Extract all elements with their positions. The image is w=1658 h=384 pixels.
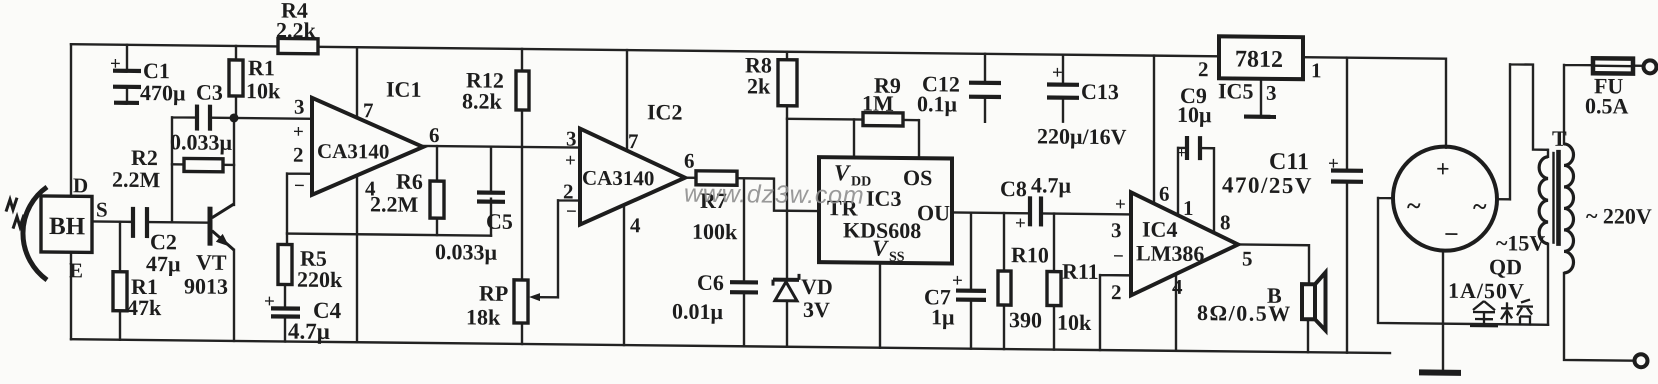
svg-text:4.7μ: 4.7μ xyxy=(1031,172,1071,197)
svg-text:3: 3 xyxy=(1111,218,1121,242)
svg-text:+: + xyxy=(293,122,304,143)
svg-text:CA3140: CA3140 xyxy=(582,166,654,191)
bridge rectifier QD circle xyxy=(1393,146,1497,251)
svg-text:IC4: IC4 xyxy=(1142,216,1177,241)
wire C3 left to R2/base xyxy=(172,117,196,222)
capacitor C5 plates xyxy=(477,193,505,202)
bridge minus output wire xyxy=(1442,252,1444,371)
svg-text:E: E xyxy=(69,258,83,282)
speaker B body xyxy=(1302,272,1326,330)
resistor R8 leads xyxy=(786,52,788,280)
wire IC4 pin2 ground xyxy=(1100,275,1131,350)
svg-text:BH: BH xyxy=(49,213,86,240)
svg-text:8Ω/0.5W: 8Ω/0.5W xyxy=(1197,300,1292,326)
resistor R6 leads xyxy=(436,146,438,235)
resistor R9 leads xyxy=(854,119,919,158)
svg-text:9013: 9013 xyxy=(184,273,228,298)
svg-text:1M: 1M xyxy=(862,91,894,116)
svg-text:10μ: 10μ xyxy=(1177,102,1212,127)
resistor R6 2.2M body xyxy=(430,181,444,218)
svg-text:6: 6 xyxy=(684,149,694,173)
svg-text:2k: 2k xyxy=(747,73,771,98)
wire IC4 pin6 xyxy=(1153,56,1155,204)
capacitor C1 plates xyxy=(113,71,141,103)
IC3 KDS608 box xyxy=(819,157,952,263)
svg-text:8.2k: 8.2k xyxy=(462,88,502,113)
resistor R4 2.2k body xyxy=(278,38,318,53)
svg-text:3: 3 xyxy=(1266,81,1276,105)
bridge minus ground bar xyxy=(1419,369,1461,375)
resistor R12 8.2k body xyxy=(516,71,529,110)
svg-text:~ 220V: ~ 220V xyxy=(1586,203,1652,229)
capacitor C11 plates xyxy=(1331,170,1363,181)
svg-text:7: 7 xyxy=(628,129,638,153)
microphone BH box xyxy=(41,196,92,253)
svg-text:VT: VT xyxy=(196,250,227,275)
svg-text:+: + xyxy=(952,270,963,291)
op-amp IC1 triangle xyxy=(312,98,423,196)
capacitor C13 leads xyxy=(1062,55,1064,122)
svg-text:100k: 100k xyxy=(692,219,738,244)
svg-text:RP: RP xyxy=(479,281,508,306)
terminal circle bottom xyxy=(1635,354,1648,367)
svg-text:10k: 10k xyxy=(1057,310,1092,335)
svg-text:−: − xyxy=(1113,246,1124,267)
wire IC2 pin4 xyxy=(623,205,625,345)
IC3 internal labels xyxy=(827,160,950,265)
resistor R2 leads xyxy=(172,163,234,166)
capacitor C13 plates xyxy=(1047,84,1079,97)
svg-text:2: 2 xyxy=(1198,57,1208,81)
svg-text:C8: C8 xyxy=(1000,176,1027,201)
svg-text:390: 390 xyxy=(1009,307,1042,332)
wire IC3 OU output to C8 and IC4 xyxy=(952,212,1131,214)
resistor R10 leads xyxy=(1003,213,1005,349)
svg-text:−: − xyxy=(1444,220,1459,249)
capacitor C11 leads xyxy=(1346,58,1348,353)
resistor R11 10k body xyxy=(1047,271,1061,305)
wire IC1 pin4 xyxy=(356,175,358,342)
resistor R5 220k body xyxy=(278,244,292,284)
transformer core lines xyxy=(1552,152,1554,244)
wire IC4 pin1 with C9 foot xyxy=(1178,148,1187,215)
svg-text:IC5: IC5 xyxy=(1218,78,1253,103)
svg-text:IC2: IC2 xyxy=(647,99,682,124)
svg-text:−: − xyxy=(294,176,305,197)
svg-text:S: S xyxy=(96,198,108,222)
svg-text:+: + xyxy=(110,54,121,75)
capacitor C4 leads xyxy=(284,284,286,341)
svg-text:R6: R6 xyxy=(396,169,423,194)
svg-text:QD: QD xyxy=(1489,254,1522,279)
svg-text:D: D xyxy=(73,173,88,197)
svg-text:SS: SS xyxy=(889,250,905,265)
svg-text:+: + xyxy=(1115,194,1126,215)
capacitor plates xyxy=(113,71,758,322)
svg-text:220μ/16V: 220μ/16V xyxy=(1037,123,1127,149)
potentiometer RP arrow xyxy=(529,293,540,301)
terminal circle top xyxy=(1644,60,1657,73)
svg-text:47k: 47k xyxy=(127,295,162,320)
resistor R2 2.2M body xyxy=(184,158,223,171)
svg-text:7812: 7812 xyxy=(1235,46,1283,73)
wire top bus xyxy=(71,44,1446,147)
resistor R10 390 body xyxy=(998,271,1011,305)
svg-text:R10: R10 xyxy=(1011,242,1049,267)
capacitor C5 leads xyxy=(490,147,492,236)
svg-text:+: + xyxy=(1015,213,1026,234)
capacitor C2 plates xyxy=(133,207,147,238)
svg-text:C5: C5 xyxy=(486,209,513,234)
svg-text:C6: C6 xyxy=(697,270,724,295)
capacitor C7 leads xyxy=(970,213,972,349)
svg-text:+: + xyxy=(264,291,275,312)
sound wave marks at microphone xyxy=(6,198,24,229)
regulator 7812 pin3 lead xyxy=(1260,79,1262,117)
wire IC4 pin5 to speaker xyxy=(1238,244,1309,352)
op-amp IC2 triangle xyxy=(580,129,685,226)
node collector junction wire to op-amp xyxy=(211,118,312,119)
svg-text:+: + xyxy=(1328,153,1339,174)
svg-text:R11: R11 xyxy=(1062,259,1099,284)
transistor VT 9013 xyxy=(210,204,234,250)
svg-text:2.2k: 2.2k xyxy=(276,17,316,42)
wire bottom ground bus xyxy=(71,339,1390,353)
svg-text:+: + xyxy=(1177,145,1186,162)
wire IC2 pin7 xyxy=(626,50,628,150)
resistor R1 10k body xyxy=(229,60,243,96)
capacitor C12 plates xyxy=(969,83,1001,97)
svg-text:2.2M: 2.2M xyxy=(370,191,418,217)
wire left rail xyxy=(70,44,72,339)
regulator pin3 ground bar xyxy=(1244,114,1276,119)
potentiometer RP 18k body xyxy=(514,280,528,323)
svg-text:T: T xyxy=(1552,126,1567,151)
svg-text:OU: OU xyxy=(917,200,950,225)
svg-text:R1: R1 xyxy=(248,55,275,80)
svg-text:0.5A: 0.5A xyxy=(1585,93,1628,118)
svg-text:4: 4 xyxy=(1172,275,1183,299)
capacitor C6 plates xyxy=(730,282,758,292)
capacitor C7 plates xyxy=(956,291,986,300)
svg-text:~: ~ xyxy=(1473,192,1487,221)
svg-text:0.1μ: 0.1μ xyxy=(917,91,957,116)
svg-text:3: 3 xyxy=(294,95,304,119)
wire IC1 inverting input xyxy=(287,174,312,245)
wire BH S to C2 to base xyxy=(92,221,210,222)
svg-text:OS: OS xyxy=(903,165,932,190)
svg-text:47μ: 47μ xyxy=(146,251,181,276)
svg-text:2.2M: 2.2M xyxy=(112,167,160,193)
capacitor C12 leads xyxy=(984,54,986,122)
wire collector vertical xyxy=(233,118,235,205)
wire IC4 pin8 with C9 foot xyxy=(1200,148,1214,233)
svg-text:18k: 18k xyxy=(466,304,501,329)
svg-text:C11: C11 xyxy=(1269,149,1309,175)
audio amp IC4 LM386 triangle xyxy=(1131,192,1238,296)
resistor R1 47k leads xyxy=(119,222,121,340)
svg-text:IC1: IC1 xyxy=(386,77,421,102)
wire IC4 pin4 xyxy=(1175,274,1177,351)
svg-text:~15V: ~15V xyxy=(1496,230,1545,256)
transformer primary winding xyxy=(1564,144,1574,273)
capacitor C3 plates xyxy=(197,105,210,131)
svg-text:V: V xyxy=(872,236,889,261)
fuse FU body xyxy=(1593,58,1633,73)
svg-text:+: + xyxy=(1436,157,1450,183)
svg-text:220k: 220k xyxy=(297,267,343,292)
regulator IC5 7812 box xyxy=(1219,36,1303,79)
svg-text:www.dz3w.com: www.dz3w.com xyxy=(684,180,864,210)
capacitor C9 plates xyxy=(1187,136,1200,160)
resistor R7 100k body xyxy=(696,171,737,185)
svg-text:7: 7 xyxy=(363,98,373,122)
wire R8 to R9/Vdd xyxy=(787,119,854,158)
wire IC1 output to IC2 xyxy=(423,146,580,148)
transistor VT emitter/collector leads xyxy=(233,250,235,341)
svg-text:0.033μ: 0.033μ xyxy=(435,239,497,265)
svg-text:1: 1 xyxy=(1311,58,1321,82)
svg-text:0.033μ: 0.033μ xyxy=(170,129,232,155)
microphone arc xyxy=(23,187,47,280)
svg-text:470μ: 470μ xyxy=(140,80,186,105)
svg-text:1A/50V: 1A/50V xyxy=(1448,278,1525,304)
transformer primary top wire to fuse xyxy=(1564,65,1643,145)
resistor R9 1M body xyxy=(863,113,903,126)
pin number labels xyxy=(110,53,1487,325)
svg-text:C3: C3 xyxy=(196,80,223,105)
capacitor C4 plates xyxy=(271,308,300,316)
svg-text:VD: VD xyxy=(801,274,833,299)
svg-text:1: 1 xyxy=(1183,196,1193,220)
capacitor C1 lead xyxy=(126,45,128,101)
resistor R1 47k body xyxy=(113,272,127,311)
transformer primary bottom wire xyxy=(1564,273,1634,361)
svg-text:3: 3 xyxy=(566,126,576,150)
svg-text:470/25V: 470/25V xyxy=(1222,172,1313,198)
svg-text:5: 5 xyxy=(1242,247,1252,271)
svg-text:2: 2 xyxy=(1111,280,1121,304)
svg-text:−: − xyxy=(566,201,577,222)
bridge left AC input wire xyxy=(1378,198,1548,325)
svg-text:10k: 10k xyxy=(246,78,281,103)
resistor R8 2k body xyxy=(778,60,797,106)
svg-text:2: 2 xyxy=(563,179,573,203)
resistor R12 leads / RP chain xyxy=(521,49,523,344)
wire IC3 Vss to ground xyxy=(879,263,881,348)
zener diode VD xyxy=(773,274,799,301)
svg-text:0.01μ: 0.01μ xyxy=(672,299,723,325)
zener VD bottom lead xyxy=(786,301,788,347)
svg-text:IC3: IC3 xyxy=(866,186,901,211)
wire IC2 output through R7 to TR xyxy=(685,178,819,211)
svg-text:LM386: LM386 xyxy=(1136,240,1204,266)
svg-text:~: ~ xyxy=(1407,191,1421,220)
transformer secondary winding xyxy=(1539,157,1548,244)
svg-text:1μ: 1μ xyxy=(931,304,955,329)
svg-text:CA3140: CA3140 xyxy=(317,139,389,164)
wire IC1 pin7 xyxy=(356,47,358,118)
transformer secondary bottom wire xyxy=(1547,244,1549,325)
svg-text:6: 6 xyxy=(429,123,439,147)
svg-text:3V: 3V xyxy=(803,297,830,322)
svg-text:+: + xyxy=(1052,63,1063,84)
svg-text:C13: C13 xyxy=(1081,79,1119,104)
svg-text:6: 6 xyxy=(1159,182,1169,206)
svg-text:+: + xyxy=(565,150,576,171)
label 全桥 drawn strokes xyxy=(1470,299,1533,327)
svg-text:4: 4 xyxy=(630,213,641,237)
junction dot collector node xyxy=(230,113,239,122)
capacitor C8 plates xyxy=(1030,196,1041,226)
resistor R1 10k leads xyxy=(235,46,237,118)
svg-text:8: 8 xyxy=(1220,210,1230,234)
svg-text:4.7μ: 4.7μ xyxy=(288,319,330,344)
svg-text:4: 4 xyxy=(365,176,376,200)
transformer secondary top wire xyxy=(1497,64,1548,200)
resistor R11 leads xyxy=(1053,214,1055,350)
capacitor C6 lead wires xyxy=(743,179,745,346)
svg-text:2: 2 xyxy=(293,143,303,167)
potentiometer RP wiper wire xyxy=(537,200,580,297)
wire feedback node xyxy=(287,234,491,236)
